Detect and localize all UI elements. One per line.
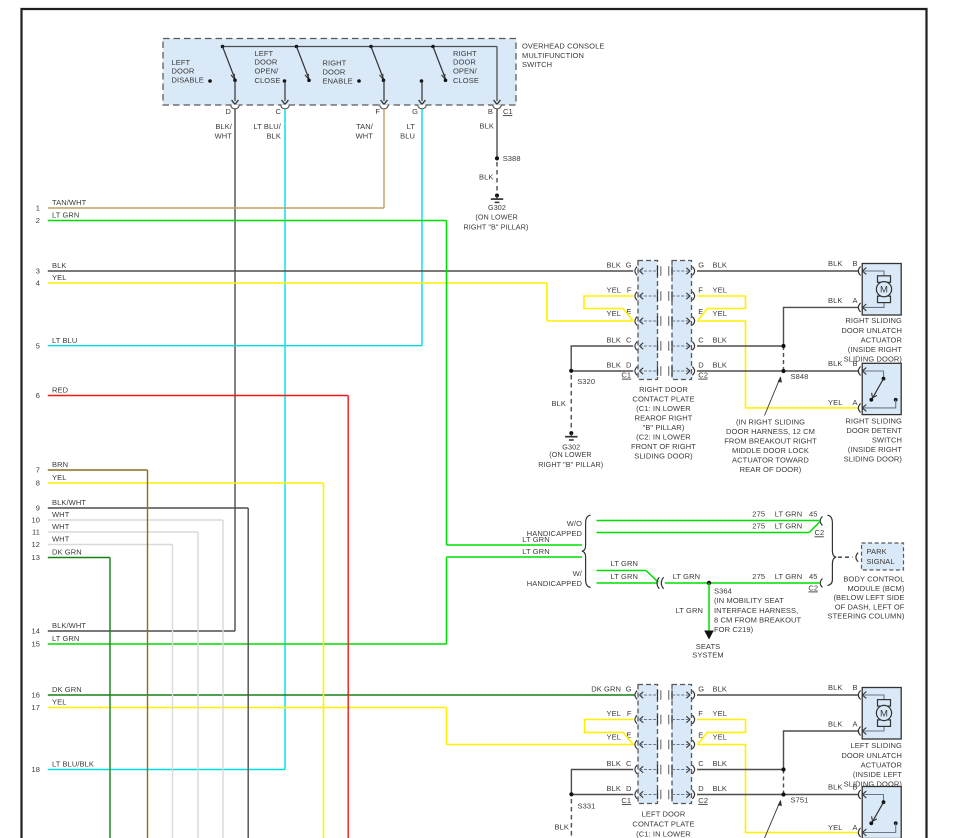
svg-text:WHT: WHT	[52, 535, 70, 544]
svg-text:BLK: BLK	[713, 784, 727, 793]
svg-text:TAN/WHT: TAN/WHT	[52, 198, 87, 207]
svg-text:STEERING COLUMN): STEERING COLUMN)	[827, 612, 904, 621]
svg-text:YEL: YEL	[52, 273, 66, 282]
svg-text:(INSIDE RIGHT: (INSIDE RIGHT	[848, 445, 903, 454]
svg-text:WHT: WHT	[52, 522, 70, 531]
svg-text:5: 5	[36, 341, 40, 350]
svg-text:BLK: BLK	[828, 259, 842, 268]
svg-text:CONTACT PLATE: CONTACT PLATE	[632, 394, 694, 403]
svg-text:M: M	[880, 709, 888, 720]
svg-text:F: F	[627, 286, 632, 295]
svg-text:BLK: BLK	[607, 336, 621, 345]
svg-text:275: 275	[752, 521, 765, 530]
svg-text:LEFT SLIDING: LEFT SLIDING	[851, 741, 903, 750]
svg-text:11: 11	[32, 528, 40, 537]
svg-text:A: A	[852, 823, 857, 832]
svg-text:(IN MOBILITY SEAT: (IN MOBILITY SEAT	[714, 596, 784, 605]
svg-text:C: C	[698, 759, 704, 768]
svg-text:6: 6	[36, 391, 40, 400]
svg-text:OPEN/: OPEN/	[255, 67, 280, 76]
svg-text:G302: G302	[488, 203, 506, 212]
svg-text:SIGNAL: SIGNAL	[867, 557, 895, 566]
svg-text:(IN RIGHT SLIDING: (IN RIGHT SLIDING	[736, 417, 805, 426]
svg-text:LT BLU/BLK: LT BLU/BLK	[52, 760, 94, 769]
svg-text:RIGHT "B" PILLAR): RIGHT "B" PILLAR)	[464, 223, 529, 232]
svg-text:BLK: BLK	[713, 261, 727, 270]
svg-text:YEL: YEL	[607, 309, 621, 318]
svg-text:13: 13	[31, 553, 40, 562]
svg-text:BODY CONTROL: BODY CONTROL	[843, 575, 904, 584]
svg-text:SLIDING DOOR): SLIDING DOOR)	[844, 354, 903, 363]
svg-text:SLIDING DOOR): SLIDING DOOR)	[844, 455, 903, 464]
svg-text:LT: LT	[407, 122, 416, 131]
svg-text:FROM BREAKOUT RIGHT: FROM BREAKOUT RIGHT	[724, 436, 817, 445]
svg-text:LT GRN: LT GRN	[611, 559, 638, 568]
svg-text:BLK/WHT: BLK/WHT	[52, 498, 86, 507]
svg-text:(BELOW LEFT SIDE: (BELOW LEFT SIDE	[833, 593, 904, 602]
svg-text:WHT: WHT	[52, 510, 70, 519]
svg-text:4: 4	[36, 279, 40, 288]
svg-text:LT BLU: LT BLU	[52, 336, 77, 345]
svg-text:F: F	[698, 286, 703, 295]
svg-text:18: 18	[31, 765, 40, 774]
svg-text:INTERFACE HARNESS,: INTERFACE HARNESS,	[714, 606, 798, 615]
svg-text:BLK: BLK	[480, 122, 494, 131]
svg-text:C1: C1	[621, 796, 631, 805]
svg-text:G: G	[412, 107, 418, 116]
svg-text:BLK: BLK	[828, 359, 842, 368]
svg-text:B: B	[488, 107, 493, 116]
svg-text:S331: S331	[578, 802, 596, 811]
svg-text:275: 275	[752, 509, 765, 518]
svg-text:YEL: YEL	[607, 709, 621, 718]
svg-text:C2: C2	[808, 583, 818, 592]
svg-text:2: 2	[36, 216, 40, 225]
svg-text:RIGHT SLIDING: RIGHT SLIDING	[845, 316, 902, 325]
svg-text:LT GRN: LT GRN	[673, 572, 700, 581]
svg-text:BLK: BLK	[713, 336, 727, 345]
svg-text:1: 1	[36, 204, 40, 213]
svg-text:YEL: YEL	[713, 309, 727, 318]
svg-text:C2: C2	[698, 371, 708, 380]
svg-text:LEFT DOOR: LEFT DOOR	[642, 810, 686, 819]
svg-text:BLK: BLK	[52, 261, 66, 270]
svg-text:BLK: BLK	[713, 361, 727, 370]
svg-text:MIDDLE DOOR LOCK: MIDDLE DOOR LOCK	[732, 446, 809, 455]
svg-text:G: G	[698, 261, 704, 270]
svg-text:BLK: BLK	[267, 132, 281, 141]
svg-text:C2: C2	[815, 528, 825, 537]
svg-text:(C2: IN LOWER: (C2: IN LOWER	[636, 433, 691, 442]
svg-text:BLK: BLK	[607, 261, 621, 270]
svg-text:3: 3	[36, 267, 40, 276]
svg-text:BLK: BLK	[607, 361, 621, 370]
svg-text:M: M	[880, 285, 888, 296]
svg-text:14: 14	[31, 627, 40, 636]
svg-text:BLK: BLK	[713, 685, 727, 694]
svg-text:D: D	[225, 107, 231, 116]
svg-text:A: A	[852, 720, 857, 729]
svg-text:RED: RED	[52, 386, 69, 395]
svg-text:8: 8	[36, 479, 40, 488]
svg-text:17: 17	[31, 703, 40, 712]
svg-text:RIGHT "B" PILLAR): RIGHT "B" PILLAR)	[538, 460, 603, 469]
svg-text:S848: S848	[791, 372, 809, 381]
svg-text:SWITCH: SWITCH	[872, 436, 902, 445]
svg-text:C: C	[698, 336, 704, 345]
svg-text:F: F	[627, 709, 632, 718]
svg-text:OVERHEAD CONSOLE: OVERHEAD CONSOLE	[522, 42, 604, 51]
svg-text:WHT: WHT	[215, 132, 233, 141]
svg-text:PARK: PARK	[867, 547, 887, 556]
svg-text:W/O: W/O	[567, 519, 582, 528]
svg-text:SWITCH: SWITCH	[522, 60, 552, 69]
svg-text:ENABLE: ENABLE	[323, 77, 353, 86]
svg-text:45: 45	[809, 509, 818, 518]
svg-text:LT GRN: LT GRN	[611, 572, 638, 581]
svg-text:YEL: YEL	[713, 733, 727, 742]
svg-text:LT GRN: LT GRN	[52, 634, 79, 643]
svg-text:CONTACT PLATE: CONTACT PLATE	[632, 820, 694, 829]
svg-text:YEL: YEL	[607, 733, 621, 742]
svg-text:F: F	[375, 107, 380, 116]
svg-text:RIGHT SLIDING: RIGHT SLIDING	[845, 416, 902, 425]
svg-text:(INSIDE LEFT: (INSIDE LEFT	[853, 770, 902, 779]
svg-text:RIGHT DOOR: RIGHT DOOR	[639, 385, 688, 394]
svg-text:B: B	[852, 683, 857, 692]
svg-text:S388: S388	[503, 154, 521, 163]
svg-text:DOOR: DOOR	[255, 58, 278, 67]
svg-text:LT GRN: LT GRN	[676, 606, 703, 615]
svg-text:LT GRN: LT GRN	[775, 572, 802, 581]
svg-text:C: C	[275, 107, 281, 116]
svg-text:CLOSE: CLOSE	[453, 76, 479, 85]
svg-text:DOOR UNLATCH: DOOR UNLATCH	[841, 326, 902, 335]
svg-text:G: G	[626, 261, 632, 270]
svg-text:G: G	[698, 685, 704, 694]
svg-text:BLU: BLU	[400, 132, 415, 141]
svg-text:LT BLU/: LT BLU/	[253, 122, 281, 131]
svg-text:D: D	[698, 784, 704, 793]
svg-text:BLK: BLK	[607, 759, 621, 768]
svg-text:RIGHT: RIGHT	[323, 59, 347, 68]
svg-text:DOOR: DOOR	[453, 58, 476, 67]
svg-text:(C1: IN LOWER: (C1: IN LOWER	[636, 829, 691, 838]
svg-text:275: 275	[752, 572, 765, 581]
svg-text:D: D	[626, 784, 632, 793]
svg-text:LT GRN: LT GRN	[522, 547, 549, 556]
svg-text:DISABLE: DISABLE	[172, 75, 204, 84]
svg-text:(INSIDE RIGHT: (INSIDE RIGHT	[848, 345, 903, 354]
svg-text:DK GRN: DK GRN	[52, 548, 82, 557]
svg-text:DK GRN: DK GRN	[591, 685, 621, 694]
svg-text:WHT: WHT	[356, 132, 374, 141]
svg-text:YEL: YEL	[713, 286, 727, 295]
svg-text:C2: C2	[698, 796, 708, 805]
svg-text:DK GRN: DK GRN	[52, 685, 82, 694]
svg-text:10: 10	[31, 516, 40, 525]
svg-text:MODULE (BCM): MODULE (BCM)	[847, 584, 904, 593]
svg-text:16: 16	[31, 691, 40, 700]
svg-text:15: 15	[31, 640, 40, 649]
svg-text:ACTUATOR: ACTUATOR	[861, 335, 903, 344]
svg-text:BLK: BLK	[828, 720, 842, 729]
svg-text:C: C	[626, 336, 632, 345]
svg-text:FOR C219): FOR C219)	[714, 625, 754, 634]
svg-text:BLK/: BLK/	[215, 122, 232, 131]
svg-text:BRN: BRN	[52, 460, 68, 469]
svg-text:ACTUATOR TOWARD: ACTUATOR TOWARD	[732, 456, 809, 465]
svg-text:B: B	[852, 259, 857, 268]
svg-text:S751: S751	[791, 795, 809, 804]
svg-text:LT GRN: LT GRN	[775, 521, 802, 530]
svg-text:9: 9	[36, 504, 40, 513]
svg-text:SEATS: SEATS	[696, 642, 721, 651]
svg-text:LT GRN: LT GRN	[522, 535, 549, 544]
svg-text:MULTIFUNCTION: MULTIFUNCTION	[522, 51, 584, 60]
svg-text:YEL: YEL	[52, 698, 66, 707]
svg-text:LT GRN: LT GRN	[775, 509, 802, 518]
svg-text:HANDICAPPED: HANDICAPPED	[527, 579, 583, 588]
svg-text:BLK: BLK	[828, 783, 842, 792]
svg-text:S320: S320	[577, 377, 595, 386]
svg-text:SLIDING DOOR): SLIDING DOOR)	[634, 452, 693, 461]
svg-text:45: 45	[809, 572, 818, 581]
svg-text:FRONT OF RIGHT: FRONT OF RIGHT	[631, 442, 696, 451]
svg-text:(C1: IN LOWER: (C1: IN LOWER	[636, 404, 691, 413]
svg-text:REAR OF DOOR): REAR OF DOOR)	[740, 465, 802, 474]
svg-text:A: A	[852, 398, 857, 407]
svg-text:"B" PILLAR): "B" PILLAR)	[643, 423, 685, 432]
svg-text:(ON LOWER: (ON LOWER	[475, 212, 517, 221]
svg-text:BLK/WHT: BLK/WHT	[52, 621, 86, 630]
svg-text:YEL: YEL	[713, 709, 727, 718]
svg-text:A: A	[852, 296, 857, 305]
svg-text:CLOSE: CLOSE	[255, 76, 281, 85]
svg-text:YEL: YEL	[52, 473, 66, 482]
svg-text:8 CM FROM BREAKOUT: 8 CM FROM BREAKOUT	[714, 615, 802, 624]
svg-text:S364: S364	[714, 586, 732, 595]
svg-text:D: D	[626, 361, 632, 370]
svg-text:G: G	[626, 685, 632, 694]
svg-text:BLK: BLK	[607, 784, 621, 793]
svg-text:D: D	[698, 361, 704, 370]
svg-text:REAROF RIGHT: REAROF RIGHT	[635, 413, 693, 422]
svg-text:BLK: BLK	[479, 172, 493, 181]
svg-text:ACTUATOR: ACTUATOR	[861, 760, 903, 769]
svg-text:(ON LOWER: (ON LOWER	[549, 450, 591, 459]
svg-text:YEL: YEL	[607, 286, 621, 295]
svg-text:C1: C1	[503, 107, 513, 116]
svg-text:SYSTEM: SYSTEM	[692, 651, 723, 660]
svg-text:BLK: BLK	[555, 823, 569, 832]
svg-text:C: C	[626, 759, 632, 768]
svg-text:OPEN/: OPEN/	[453, 67, 478, 76]
svg-text:DOOR HARNESS, 12 CM: DOOR HARNESS, 12 CM	[726, 427, 815, 436]
svg-text:OF DASH, LEFT OF: OF DASH, LEFT OF	[835, 602, 905, 611]
svg-text:12: 12	[31, 540, 40, 549]
svg-text:F: F	[698, 709, 703, 718]
svg-text:7: 7	[36, 466, 40, 475]
svg-text:YEL: YEL	[828, 823, 842, 832]
svg-text:BLK: BLK	[828, 683, 842, 692]
svg-text:YEL: YEL	[828, 398, 842, 407]
svg-text:DOOR: DOOR	[323, 68, 346, 77]
svg-text:BLK: BLK	[552, 399, 566, 408]
svg-text:LT GRN: LT GRN	[52, 211, 79, 220]
svg-text:C1: C1	[621, 371, 631, 380]
svg-text:BLK: BLK	[828, 296, 842, 305]
svg-text:W/: W/	[573, 569, 583, 578]
svg-text:TAN/: TAN/	[356, 122, 374, 131]
svg-text:DOOR: DOOR	[172, 66, 195, 75]
svg-text:DOOR UNLATCH: DOOR UNLATCH	[841, 751, 902, 760]
svg-text:DOOR DETENT: DOOR DETENT	[846, 426, 902, 435]
svg-text:BLK: BLK	[713, 759, 727, 768]
